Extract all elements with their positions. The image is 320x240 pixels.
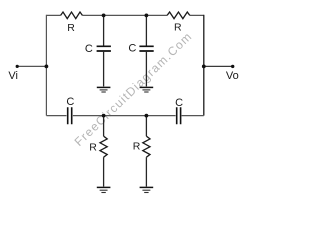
node: Vo terminal dot [231,65,234,68]
node A (top junction R1/C1) [102,13,106,17]
svg-text:R: R [67,22,75,34]
label C of C2 [128,42,136,54]
label R of R2 [174,22,182,34]
svg-text:Vo: Vo [226,70,239,82]
label R of R4 [133,141,141,153]
wire: Vo lead [204,65,233,67]
svg-text:R: R [133,141,141,153]
resistor R4 (bottom right, vertical shunt x=146.4) [143,116,150,187]
ground (under C1) [97,87,111,92]
capacitor C2 (top, shunt at node B x=146.4) [139,15,153,86]
svg-text:C: C [128,42,136,54]
label R of R3 [89,141,97,153]
node: Vi junction on left rail [45,65,49,69]
node: Vi terminal dot [16,65,19,68]
watermark FreeCircuitDiagram.Com [72,29,195,149]
ground (under R4) [140,187,154,192]
wire: top rail segments y=15.35 [46,14,203,16]
label Vi (input) [8,70,18,82]
wire: left rail x=46.4 [45,15,47,116]
resistor R1 (top left, horizontal) [61,12,83,19]
svg-text:R: R [89,141,97,153]
capacitor C3 (bottom left, series in y=115.6 rail) [68,107,72,124]
node D (bottom junction at R4) [145,114,149,118]
label C of C3 [66,96,74,108]
label C of C1 [85,43,93,55]
wire: right rail x=203.8 [203,15,205,116]
capacitor C4 (bottom right, series in y=115.6 rail) [177,107,181,124]
ground (under R3) [97,187,111,192]
label Vo (output) [226,70,239,82]
label R of R1 [67,22,75,34]
label C of C4 [175,97,183,109]
ground (under C2) [140,87,154,92]
wire: Vi lead [17,65,46,67]
node: Vo junction on right rail [202,65,206,69]
svg-text:Vi: Vi [8,70,18,82]
svg-text:C: C [175,97,183,109]
capacitor C1 (top, shunt at node A x=103.6) [97,15,111,86]
resistor R2 (top right, horizontal) [167,12,190,19]
svg-text:R: R [174,22,182,34]
svg-text:C: C [85,43,93,55]
node C (bottom junction at R3) [102,114,106,118]
resistor R3 (bottom left, vertical shunt x=103.6) [100,116,107,187]
wire: bottom rail y=115.6 (interrupted by series capacitors) [46,115,203,117]
node B (top junction C2/R2) [145,13,149,17]
svg-text:C: C [66,96,74,108]
